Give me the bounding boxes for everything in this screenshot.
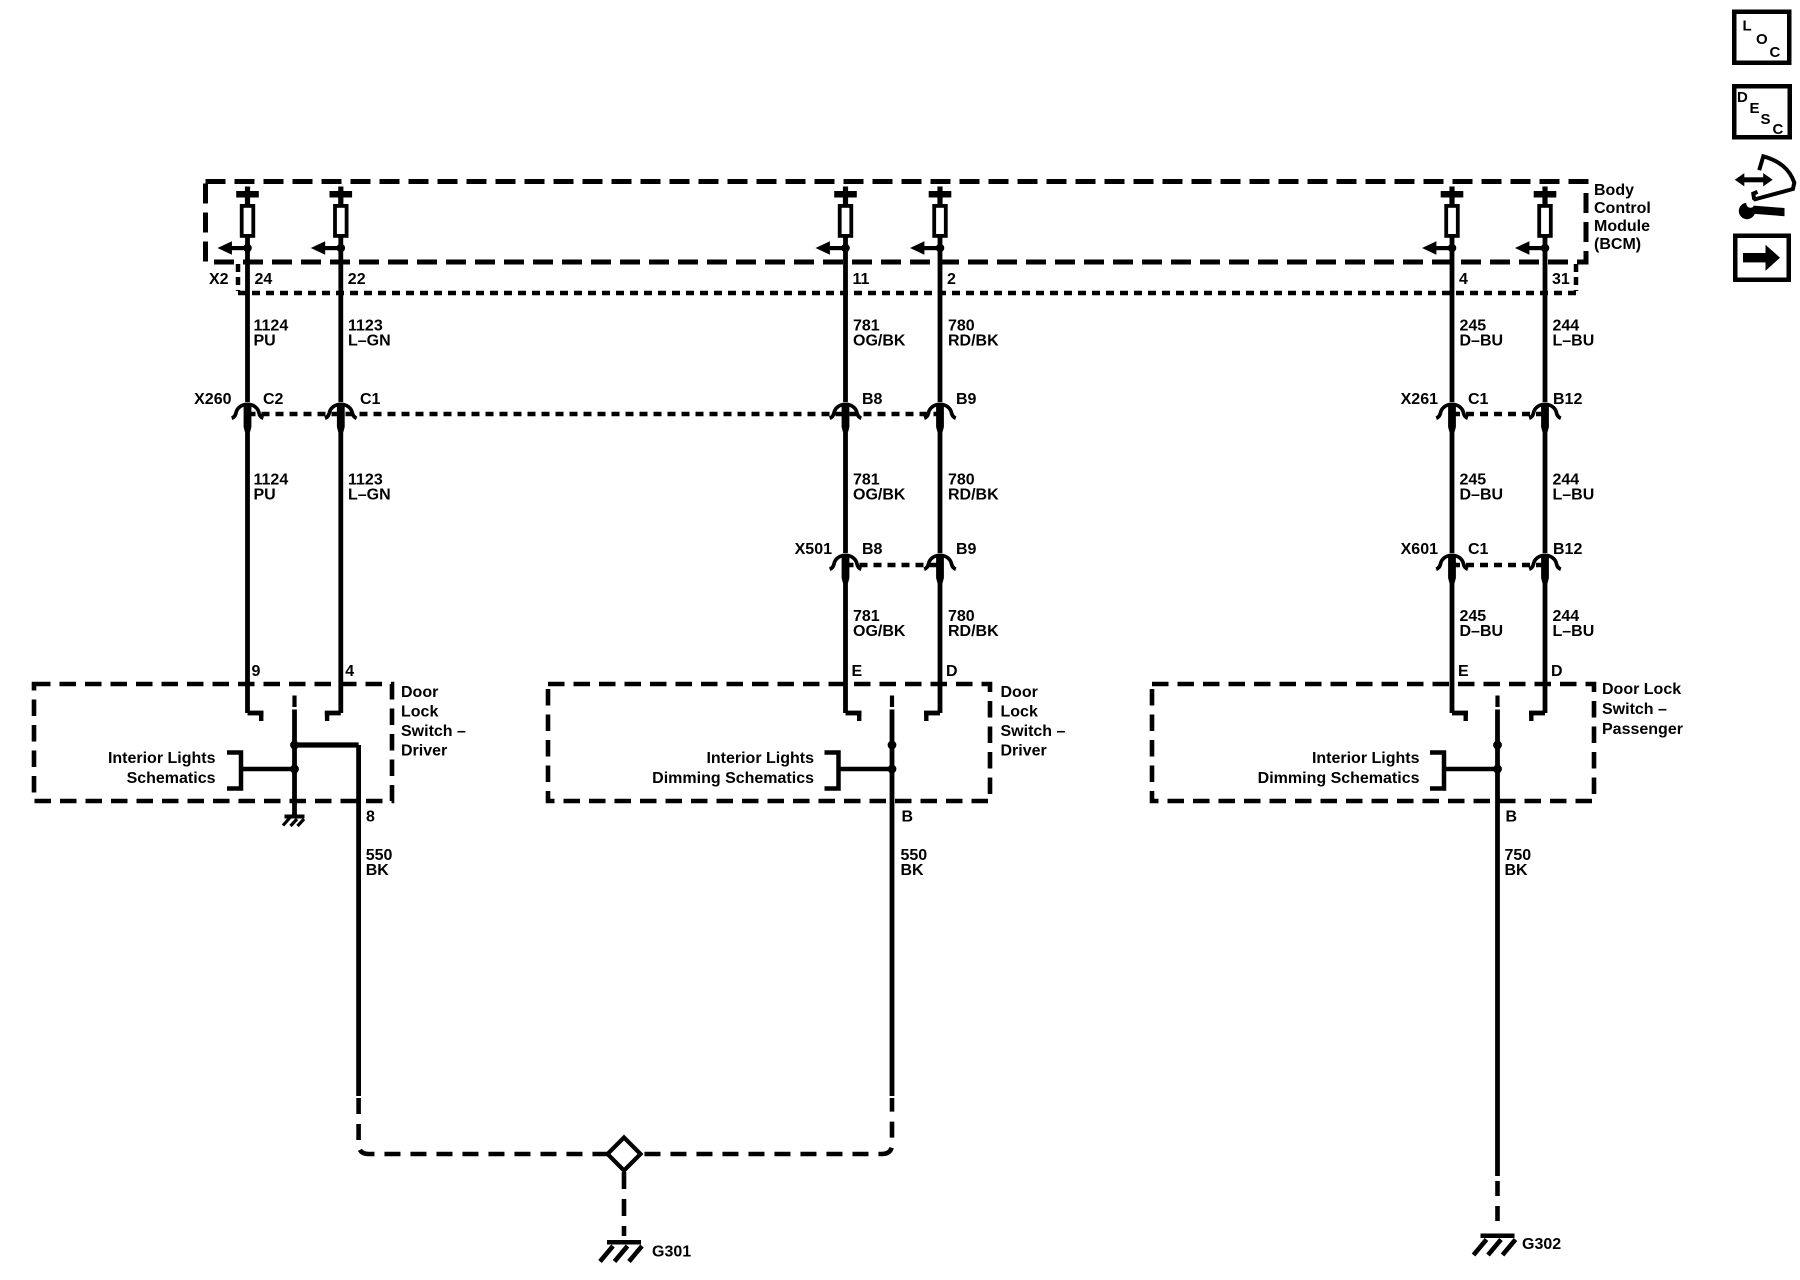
svg-text:(BCM): (BCM) [1594, 236, 1641, 253]
svg-text:4: 4 [345, 663, 354, 680]
svg-text:L: L [1743, 18, 1752, 35]
svg-text:Interior Lights: Interior Lights [108, 750, 216, 767]
svg-text:E: E [1458, 663, 1469, 680]
svg-text:OG/BK: OG/BK [853, 623, 906, 640]
svg-text:RD/BK: RD/BK [948, 623, 999, 640]
svg-text:Control: Control [1594, 200, 1651, 217]
svg-text:OG/BK: OG/BK [853, 333, 906, 350]
svg-text:C1: C1 [1468, 541, 1489, 558]
svg-text:BK: BK [366, 862, 390, 879]
svg-text:E: E [1750, 100, 1760, 117]
svg-text:Interior Lights: Interior Lights [1312, 750, 1420, 767]
svg-text:Driver: Driver [1001, 743, 1047, 760]
svg-text:Door: Door [1001, 684, 1038, 701]
svg-text:Door Lock: Door Lock [1602, 681, 1681, 698]
svg-text:D–BU: D–BU [1460, 333, 1504, 350]
svg-text:B: B [1506, 809, 1518, 826]
svg-text:G302: G302 [1522, 1236, 1561, 1253]
svg-text:B9: B9 [956, 391, 977, 408]
svg-text:B9: B9 [956, 541, 977, 558]
svg-text:D: D [1551, 663, 1563, 680]
svg-text:Switch –: Switch – [1001, 723, 1066, 740]
svg-text:RD/BK: RD/BK [948, 487, 999, 504]
svg-text:8: 8 [366, 809, 375, 826]
svg-text:C: C [1770, 44, 1781, 61]
svg-text:B8: B8 [862, 541, 883, 558]
svg-text:9: 9 [252, 663, 261, 680]
svg-text:BK: BK [901, 862, 925, 879]
svg-text:11: 11 [853, 271, 870, 288]
svg-text:B12: B12 [1553, 391, 1582, 408]
svg-text:PU: PU [254, 333, 276, 350]
svg-text:O: O [1756, 31, 1768, 48]
svg-text:PU: PU [254, 487, 276, 504]
svg-text:C2: C2 [263, 391, 284, 408]
svg-text:D–BU: D–BU [1460, 623, 1504, 640]
svg-text:B12: B12 [1553, 541, 1582, 558]
svg-text:RD/BK: RD/BK [948, 333, 999, 350]
svg-text:Module: Module [1594, 218, 1650, 235]
svg-text:BK: BK [1505, 862, 1529, 879]
svg-text:D–BU: D–BU [1460, 487, 1504, 504]
svg-text:Door: Door [401, 684, 438, 701]
svg-text:X601: X601 [1401, 541, 1438, 558]
svg-text:L–BU: L–BU [1553, 623, 1595, 640]
svg-text:Lock: Lock [401, 704, 438, 721]
svg-text:L–GN: L–GN [348, 333, 391, 350]
svg-text:4: 4 [1459, 271, 1468, 288]
svg-text:OG/BK: OG/BK [853, 487, 906, 504]
svg-text:24: 24 [255, 271, 273, 288]
svg-text:Lock: Lock [1001, 704, 1038, 721]
svg-text:S: S [1761, 111, 1771, 128]
svg-text:L–BU: L–BU [1553, 487, 1595, 504]
svg-text:E: E [852, 663, 863, 680]
svg-text:Body: Body [1594, 182, 1634, 199]
svg-text:2: 2 [947, 271, 956, 288]
svg-text:X261: X261 [1401, 391, 1438, 408]
svg-text:Schematics: Schematics [127, 770, 216, 787]
svg-text:X501: X501 [795, 541, 832, 558]
svg-text:Switch –: Switch – [401, 723, 466, 740]
svg-text:D: D [946, 663, 958, 680]
svg-text:X260: X260 [194, 391, 231, 408]
svg-text:Dimming Schematics: Dimming Schematics [652, 770, 814, 787]
svg-text:Dimming Schematics: Dimming Schematics [1258, 770, 1420, 787]
svg-text:L–BU: L–BU [1553, 333, 1595, 350]
svg-text:L–GN: L–GN [348, 487, 391, 504]
svg-text:31: 31 [1552, 271, 1570, 288]
svg-text:Passenger: Passenger [1602, 721, 1683, 738]
svg-text:Driver: Driver [401, 743, 447, 760]
svg-text:Switch –: Switch – [1602, 701, 1667, 718]
svg-text:C1: C1 [360, 391, 381, 408]
svg-text:22: 22 [348, 271, 366, 288]
svg-text:D: D [1737, 89, 1748, 106]
svg-text:C1: C1 [1468, 391, 1489, 408]
svg-text:X2: X2 [209, 271, 229, 288]
svg-text:B8: B8 [862, 391, 883, 408]
svg-text:G301: G301 [652, 1244, 691, 1261]
svg-text:Interior Lights: Interior Lights [706, 750, 814, 767]
svg-text:B: B [902, 809, 914, 826]
svg-text:C: C [1773, 121, 1784, 138]
